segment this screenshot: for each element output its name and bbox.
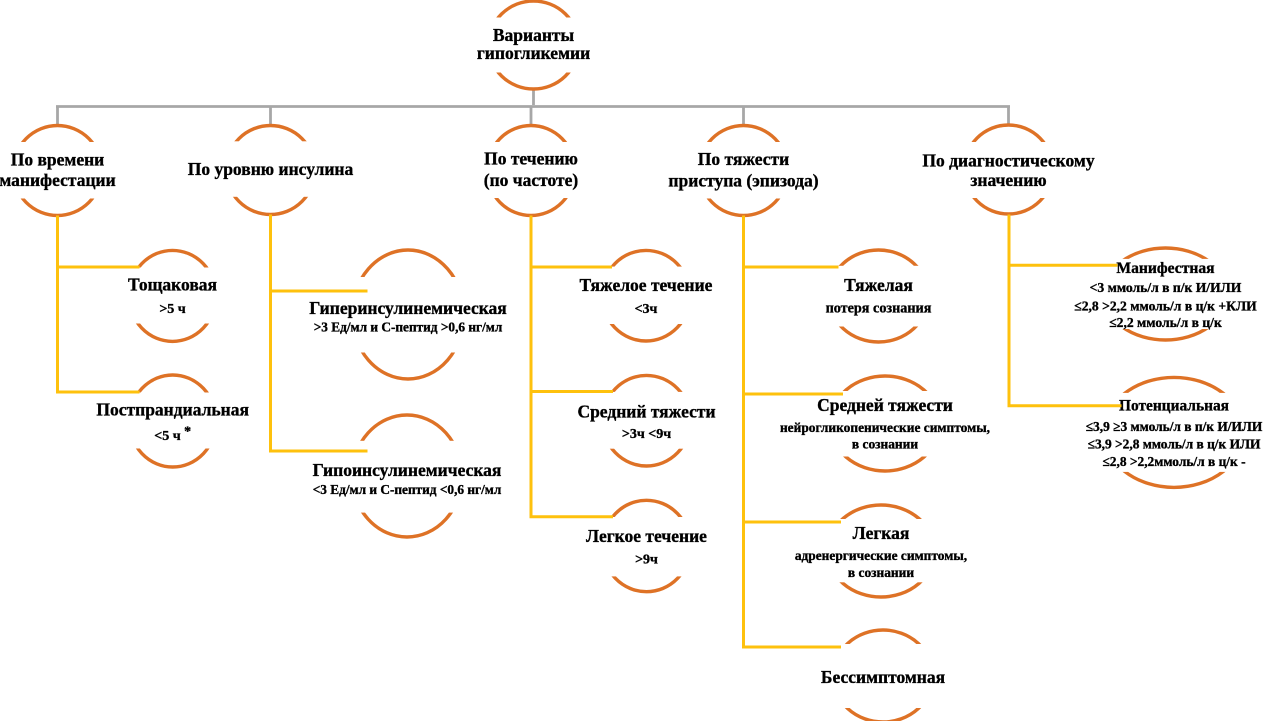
- wire: gray stub to node 3: [530, 107, 533, 127]
- svg-text:Гиперинсулинемическая: Гиперинсулинемическая: [309, 298, 507, 318]
- svg-text:≤2,8 >2,2 ммоль/л в ц/к +КЛИ: ≤2,8 >2,2 ммоль/л в ц/к +КЛИ: [1074, 298, 1257, 313]
- node: Тяжелая: [822, 250, 936, 342]
- svg-text:По диагностическому: По диагностическому: [922, 151, 1094, 171]
- svg-text:Тощаковая: Тощаковая: [128, 275, 217, 295]
- node: Легкое течение: [586, 500, 707, 591]
- svg-text:>3ч <9ч: >3ч <9ч: [622, 427, 671, 442]
- node: Потенциальная: [1086, 377, 1263, 487]
- wire: gray horizontal rail: [56, 105, 1010, 108]
- svg-text:Бессимптомная: Бессимптомная: [821, 667, 945, 687]
- svg-text:манифестации: манифестации: [0, 170, 116, 190]
- node: Легкая: [795, 505, 967, 597]
- wire: branch4 elbow to Бессимптомная: [742, 646, 841, 649]
- svg-text:≤2,2 ммоль/л в ц/к: ≤2,2 ммоль/л в ц/к: [1109, 315, 1222, 330]
- wire: branch5 elbow to Манифестная: [1008, 264, 1118, 267]
- wire: branch5 elbow to Потенциальная: [1008, 404, 1122, 407]
- svg-text:≤3,9 >2,8 ммоль/л в ц/к ИЛИ: ≤3,9 >2,8 ммоль/л в ц/к ИЛИ: [1088, 437, 1261, 452]
- svg-text:<3 ммоль/л в п/к И/ИЛИ: <3 ммоль/л в п/к И/ИЛИ: [1090, 280, 1242, 295]
- svg-text:Легкая: Легкая: [853, 523, 910, 543]
- node: По времени манифестации: [0, 126, 116, 216]
- node: По диагностическому значению: [922, 125, 1094, 214]
- wire: branch4 elbow to Тяжелая: [742, 266, 839, 269]
- svg-text:(по частоте): (по частоте): [484, 170, 579, 190]
- svg-text:<3ч: <3ч: [635, 302, 658, 317]
- node: Тощаковая: [122, 250, 223, 341]
- node: По течению (по частоте): [480, 126, 582, 216]
- svg-text:Гипоинсулинемическая: Гипоинсулинемическая: [313, 460, 502, 480]
- wire: branch4 elbow to Средней тяжести: [742, 393, 843, 396]
- wire: branch4 trunk: [742, 216, 745, 648]
- svg-text:приступа (эпизода): приступа (эпизода): [668, 171, 818, 191]
- svg-text:По уровню инсулина: По уровню инсулина: [188, 159, 354, 179]
- wire: branch4 elbow to Легкая: [742, 521, 841, 524]
- svg-text:>3 Ед/мл и С-пептид >0,6 нг/мл: >3 Ед/мл и С-пептид >0,6 нг/мл: [314, 320, 503, 335]
- svg-text:≤2,8 >2,2ммоль/л в ц/к -: ≤2,8 >2,2ммоль/л в ц/к -: [1102, 454, 1245, 469]
- svg-text:≤3,9 ≥3 ммоль/л в п/к И/ИЛИ: ≤3,9 ≥3 ммоль/л в п/к И/ИЛИ: [1086, 419, 1263, 434]
- svg-text:в сознании: в сознании: [848, 565, 914, 580]
- svg-text:Тяжелое течение: Тяжелое течение: [580, 275, 713, 295]
- svg-text:потеря сознания: потеря сознания: [826, 301, 932, 317]
- svg-text:Постпрандиальная: Постпрандиальная: [96, 400, 249, 420]
- wire: branch3 elbow to Легкое течение: [530, 515, 614, 518]
- wire: gray stub to node 4: [742, 107, 745, 127]
- svg-text:гипогликемии: гипогликемии: [477, 43, 590, 63]
- node: Манифестная: [1074, 248, 1257, 340]
- svg-text:Средней тяжести: Средней тяжести: [817, 395, 953, 415]
- svg-text:По тяжести: По тяжести: [698, 149, 789, 169]
- wire: gray stub to node 1: [56, 107, 59, 127]
- svg-text:Средний тяжести: Средний тяжести: [577, 401, 715, 421]
- svg-text:Варианты: Варианты: [493, 25, 575, 45]
- svg-text:Потенциальная: Потенциальная: [1119, 397, 1229, 414]
- wire: branch5 trunk: [1008, 215, 1011, 406]
- node: Гиперинсулинемическая: [309, 250, 507, 379]
- svg-text:Манифестная: Манифестная: [1116, 260, 1215, 277]
- wire: branch1 elbow to Постпрандиальная: [56, 391, 140, 394]
- wire: branch3 elbow to Тяжелое течение: [530, 266, 613, 269]
- node: Тяжелое течение: [580, 250, 713, 341]
- wire: branch2 trunk: [269, 215, 272, 452]
- svg-text:в сознании: в сознании: [852, 437, 918, 452]
- wire: branch3 elbow to Средний тяжести: [530, 390, 614, 393]
- node: Постпрандиальная: [96, 375, 249, 467]
- svg-text:<3 Ед/мл и С-пептид <0,6 нг/мл: <3 Ед/мл и С-пептид <0,6 нг/мл: [313, 482, 502, 497]
- wire: gray stub to node 2: [269, 107, 272, 127]
- wire: branch1 trunk: [56, 216, 59, 393]
- svg-text:>5 ч: >5 ч: [159, 302, 185, 317]
- svg-text:По течению: По течению: [484, 149, 578, 169]
- wire: branch2 elbow to Гипоинсулинемическая: [269, 450, 368, 453]
- svg-text:Легкое течение: Легкое течение: [586, 526, 707, 546]
- node: Средней тяжести: [780, 376, 990, 471]
- wire: branch1 elbow to Тощаковая: [56, 266, 140, 269]
- node: Гипоинсулинемическая: [313, 415, 502, 537]
- svg-text:нейрогликопенические симптомы,: нейрогликопенические симптомы,: [780, 420, 990, 435]
- node: Варианты гипогликемии: [477, 1, 590, 89]
- wire: branch3 trunk: [530, 216, 533, 517]
- wire: gray stub to node 5: [1007, 107, 1010, 127]
- svg-text:значению: значению: [970, 170, 1046, 190]
- node: По уровню инсулина: [188, 126, 354, 215]
- svg-text:По времени: По времени: [11, 150, 105, 170]
- svg-text:>9ч: >9ч: [635, 552, 658, 567]
- wire: gray trunk from root: [532, 89, 535, 105]
- wire: branch2 elbow to Гиперинсулинемическая: [269, 290, 368, 293]
- svg-text:Тяжелая: Тяжелая: [844, 275, 913, 295]
- node: Бессимптомная: [821, 630, 945, 721]
- node: По тяжести приступа (эпизода): [668, 126, 818, 216]
- node: Средний тяжести: [577, 375, 715, 466]
- svg-text:адренергические симптомы,: адренергические симптомы,: [795, 548, 967, 563]
